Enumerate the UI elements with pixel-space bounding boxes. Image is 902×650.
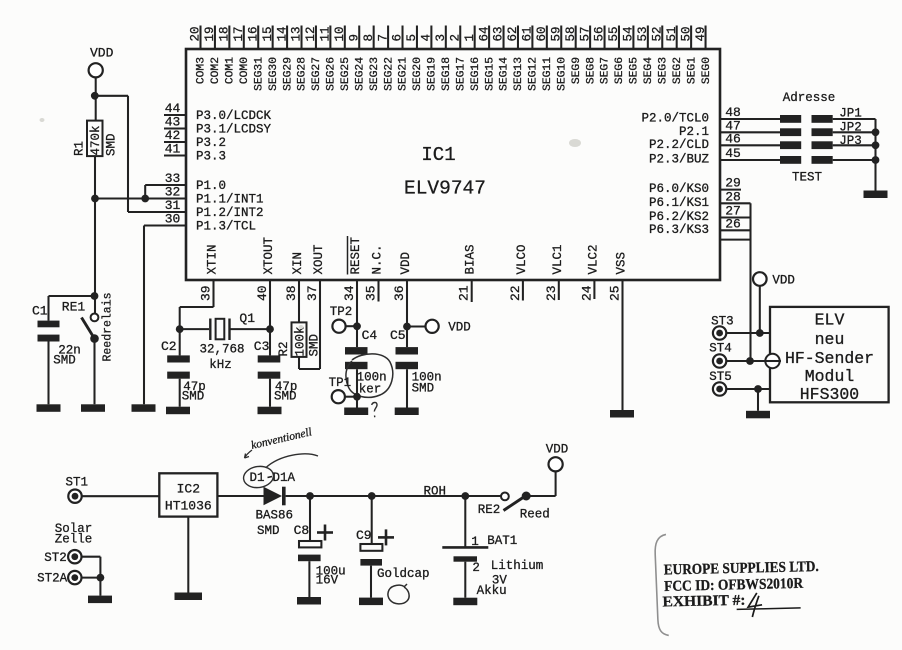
svg-text:Adresse: Adresse bbox=[783, 91, 836, 105]
svg-text:SEG26: SEG26 bbox=[326, 57, 338, 91]
svg-text:BAT1: BAT1 bbox=[487, 534, 517, 548]
svg-text:SEG0: SEG0 bbox=[701, 57, 713, 84]
svg-text:SEG23: SEG23 bbox=[369, 57, 381, 91]
crystal Q1 32,768 kHz bbox=[180, 311, 270, 372]
svg-text:40: 40 bbox=[255, 285, 270, 301]
node crystal left bbox=[176, 325, 184, 333]
svg-text:49: 49 bbox=[694, 26, 708, 41]
svg-text:46: 46 bbox=[725, 131, 741, 146]
svg-text:28: 28 bbox=[725, 189, 741, 204]
svg-text:IC2: IC2 bbox=[177, 482, 200, 497]
svg-text:37: 37 bbox=[305, 285, 320, 301]
svg-text:50: 50 bbox=[679, 26, 693, 41]
svg-text:SMD: SMD bbox=[105, 133, 119, 156]
svg-text:SEG12: SEG12 bbox=[528, 57, 540, 91]
svg-text:N.C.: N.C. bbox=[371, 244, 385, 274]
wire IC2 to D1 bbox=[217, 495, 263, 497]
svg-text:VLC2: VLC2 bbox=[586, 244, 600, 274]
connector ST2A bbox=[37, 571, 81, 586]
svg-text:P2.0/TCL0: P2.0/TCL0 bbox=[641, 112, 709, 126]
VDD supply symbol right bbox=[753, 272, 795, 287]
ground below BAT1 bbox=[453, 598, 477, 606]
svg-text:SEG24: SEG24 bbox=[354, 57, 366, 91]
wire RE2 to VDD bbox=[526, 471, 555, 496]
svg-text:51: 51 bbox=[665, 26, 679, 41]
svg-text:24: 24 bbox=[579, 285, 594, 301]
node TP2 on RESET line bbox=[353, 322, 361, 330]
svg-text:P1.3/TCL: P1.3/TCL bbox=[196, 220, 256, 234]
svg-text:P6.1/KS1: P6.1/KS1 bbox=[649, 196, 709, 210]
svg-text:SEG30: SEG30 bbox=[268, 57, 280, 91]
wire jumper bus to ground with nodes bbox=[872, 119, 880, 191]
svg-text:17: 17 bbox=[232, 26, 246, 41]
svg-text:ELV: ELV bbox=[815, 311, 845, 330]
svg-text:SMD: SMD bbox=[274, 390, 297, 404]
svg-text:JP1: JP1 bbox=[839, 107, 862, 121]
svg-text:32,768: 32,768 bbox=[200, 343, 245, 357]
svg-text:C2: C2 bbox=[161, 339, 177, 354]
svg-text:P1.0: P1.0 bbox=[196, 179, 226, 193]
svg-text:36: 36 bbox=[392, 285, 407, 301]
svg-text:Q1: Q1 bbox=[239, 311, 255, 326]
svg-text:25: 25 bbox=[608, 285, 623, 301]
svg-text:EXHIBIT #:: EXHIBIT #: bbox=[662, 593, 745, 611]
ground below jumpers bbox=[864, 191, 888, 199]
svg-text:COM2: COM2 bbox=[210, 57, 222, 84]
svg-text:SEG6: SEG6 bbox=[614, 57, 626, 84]
IC1 top pins 20..1,64..49 with COM3-COM0/SEG31-SEG0 labels bbox=[189, 26, 713, 91]
wire C8 to ground bbox=[308, 561, 310, 597]
svg-text:5: 5 bbox=[405, 34, 419, 42]
svg-text:P3.1/LCDSY: P3.1/LCDSY bbox=[196, 123, 272, 137]
node pin36 VDD bbox=[403, 323, 411, 331]
svg-text:64: 64 bbox=[477, 26, 491, 41]
wire C4 to TP1 node bbox=[356, 369, 358, 397]
wire ST3 to HF module with VDD node bbox=[726, 329, 770, 337]
wire C9 to ground bbox=[370, 566, 372, 598]
svg-text:D1: D1 bbox=[250, 471, 265, 485]
diode D1/D1A BAS86 SMD bbox=[250, 471, 296, 538]
hand-drawn loop around 100n ker bbox=[346, 354, 393, 397]
svg-text:D1A: D1A bbox=[273, 471, 296, 485]
svg-text:R2: R2 bbox=[277, 341, 291, 356]
svg-text:HFS300: HFS300 bbox=[800, 385, 859, 404]
svg-text:SEG10: SEG10 bbox=[556, 57, 568, 91]
svg-text:P1.1/INT1: P1.1/INT1 bbox=[196, 193, 264, 207]
svg-text:8: 8 bbox=[362, 34, 376, 42]
hand-drawn circle around D1 with tail over D1A bbox=[242, 454, 318, 490]
svg-text:BAS86: BAS86 bbox=[256, 509, 294, 523]
resistor R2 100k SMD between XIN and XOUT bbox=[277, 322, 322, 357]
wire R2 bottom to pin37 XOUT bbox=[299, 357, 320, 369]
svg-text:57: 57 bbox=[578, 26, 592, 41]
svg-text:SEG20: SEG20 bbox=[412, 57, 424, 91]
ground below C9 bbox=[359, 598, 383, 606]
svg-text:ELV9747: ELV9747 bbox=[404, 178, 486, 200]
svg-text:RE1: RE1 bbox=[62, 300, 86, 315]
svg-text:Akku: Akku bbox=[477, 584, 507, 598]
svg-text:VDD: VDD bbox=[399, 252, 413, 275]
svg-text:SEG7: SEG7 bbox=[600, 57, 612, 84]
svg-text:VDD: VDD bbox=[90, 46, 114, 61]
svg-text:C8: C8 bbox=[294, 523, 310, 538]
svg-text:SEG9: SEG9 bbox=[571, 57, 583, 84]
svg-text:ST2A: ST2A bbox=[37, 572, 68, 586]
svg-text:XTOUT: XTOUT bbox=[262, 236, 276, 274]
svg-text:10: 10 bbox=[333, 26, 347, 41]
wire C2 to ground bbox=[179, 379, 181, 407]
svg-text:11: 11 bbox=[319, 26, 333, 41]
svg-text:12: 12 bbox=[304, 26, 318, 41]
svg-text:HT1036: HT1036 bbox=[165, 499, 212, 514]
resistor R1 470k SMD bbox=[73, 121, 119, 157]
module ELV neu HF-Sender Modul HFS300 bbox=[770, 307, 889, 404]
svg-text:VSS: VSS bbox=[615, 252, 629, 275]
svg-text:60: 60 bbox=[535, 26, 549, 41]
svg-text:P2.3/BUZ: P2.3/BUZ bbox=[649, 153, 710, 167]
svg-text:ROH: ROH bbox=[424, 485, 447, 499]
svg-text:15: 15 bbox=[261, 26, 275, 41]
svg-text:SMD: SMD bbox=[308, 334, 322, 357]
IC1 right pins 29-26 P6.0/KS0 P6.1/KS1 P6.2/KS2 P6.3/KS3 bbox=[649, 176, 751, 240]
ground below RE1 bbox=[81, 404, 105, 412]
svg-text:HF-Sender: HF-Sender bbox=[785, 349, 874, 368]
svg-text:P6.3/KS3: P6.3/KS3 bbox=[649, 223, 709, 237]
ground below IC2 bbox=[175, 593, 203, 601]
svg-text:ST2: ST2 bbox=[44, 551, 67, 565]
wire ST5 to HF module with ground node bbox=[726, 385, 770, 393]
ground below C8 bbox=[297, 597, 321, 605]
battery BAT1 Lithium 3V Akku bbox=[442, 534, 543, 598]
svg-text:P2.1: P2.1 bbox=[679, 125, 709, 139]
svg-text:P3.0/LCDCK: P3.0/LCDCK bbox=[196, 109, 272, 123]
wire node to BAT1 bbox=[464, 496, 466, 547]
hand-drawn loop near Goldcap bbox=[388, 584, 409, 604]
svg-text:VDD: VDD bbox=[448, 321, 471, 335]
wire pin39 XTIN to crystal bbox=[180, 307, 214, 329]
svg-text:7: 7 bbox=[376, 34, 390, 42]
FCC exhibit stamp bbox=[655, 531, 821, 636]
svg-text:13: 13 bbox=[290, 26, 304, 41]
svg-text:VLCO: VLCO bbox=[515, 244, 529, 274]
svg-text:SEG16: SEG16 bbox=[470, 57, 482, 91]
svg-text:SEG4: SEG4 bbox=[643, 57, 655, 84]
svg-text:SEG1: SEG1 bbox=[686, 57, 698, 84]
svg-text:55: 55 bbox=[607, 26, 621, 41]
ground below pin25 VSS bbox=[610, 410, 634, 418]
svg-text:ker: ker bbox=[359, 383, 382, 397]
ground below ST2A bbox=[88, 596, 112, 604]
node C9 bbox=[368, 492, 376, 500]
svg-text:470k: 470k bbox=[89, 125, 103, 155]
wire IC2 to ground bbox=[187, 517, 189, 593]
capacitor C2 47p SMD bbox=[161, 329, 206, 403]
svg-text:BIAS: BIAS bbox=[464, 244, 478, 274]
svg-text:SEG14: SEG14 bbox=[499, 57, 511, 91]
svg-text:SEG5: SEG5 bbox=[629, 57, 641, 84]
svg-text:53: 53 bbox=[636, 26, 650, 41]
svg-text:JP2: JP2 bbox=[839, 121, 862, 135]
svg-text:45: 45 bbox=[725, 146, 741, 161]
handwritten annotation konventionell with arrow bbox=[245, 426, 314, 458]
wire pin30 P1.3/TCL to ground bbox=[143, 226, 145, 405]
connector ST2 bbox=[44, 550, 81, 565]
svg-text:SMD: SMD bbox=[412, 382, 435, 396]
IC1 bottom pins 39,40,38,37,34,35,36,21-25 XTIN XTOUT XIN XOUT /RESET N.C. VDD BIAS VLCO VLC1 VLC2 VSS bbox=[199, 236, 629, 410]
svg-text:61: 61 bbox=[521, 26, 535, 41]
svg-text:SEG31: SEG31 bbox=[253, 57, 265, 91]
svg-text:14: 14 bbox=[275, 26, 289, 41]
svg-text:kHz: kHz bbox=[209, 358, 232, 372]
wire VDD to R1 and node bbox=[91, 77, 99, 120]
svg-text:SEG29: SEG29 bbox=[282, 57, 294, 91]
ground below P1.3 wire bbox=[132, 404, 156, 412]
wire VDD right down to ST3 line bbox=[759, 286, 761, 333]
svg-text:SEG11: SEG11 bbox=[542, 57, 554, 91]
svg-text:Lithium: Lithium bbox=[491, 559, 544, 573]
svg-text:ST1: ST1 bbox=[66, 476, 89, 490]
svg-text:SMD: SMD bbox=[182, 390, 205, 404]
svg-text:2: 2 bbox=[472, 561, 480, 575]
node TP1 on RESET line bbox=[353, 393, 361, 401]
svg-text:RESET: RESET bbox=[349, 236, 363, 274]
svg-text:16: 16 bbox=[246, 26, 260, 41]
svg-text:58: 58 bbox=[564, 26, 578, 41]
svg-text:19: 19 bbox=[203, 26, 217, 41]
reed relay contact RE1 Reedrelais bbox=[62, 292, 115, 361]
svg-text:SMD: SMD bbox=[53, 353, 76, 367]
wire pin28 bus down to ST4 bbox=[749, 203, 751, 361]
svg-text:3: 3 bbox=[434, 34, 448, 42]
svg-text:Reedrelais: Reedrelais bbox=[102, 292, 115, 361]
capacitor C1 22n SMD bbox=[32, 304, 81, 368]
test point TP2 bbox=[330, 305, 357, 333]
svg-text:neu: neu bbox=[815, 330, 845, 349]
hand-drawn question mark bbox=[372, 402, 377, 417]
ground below ST5 line bbox=[746, 411, 770, 419]
svg-text:20: 20 bbox=[189, 26, 203, 41]
wire R1 to RE1, node to pin32 bbox=[91, 156, 149, 314]
svg-text:56: 56 bbox=[593, 26, 607, 41]
svg-text:23: 23 bbox=[544, 285, 559, 301]
svg-text:RE2: RE2 bbox=[478, 503, 501, 517]
svg-text:P6.0/KS0: P6.0/KS0 bbox=[649, 182, 709, 196]
svg-text:P3.2: P3.2 bbox=[196, 136, 226, 150]
svg-text:C9: C9 bbox=[356, 528, 372, 543]
svg-text:Reed: Reed bbox=[520, 508, 550, 522]
svg-text:16V: 16V bbox=[316, 574, 339, 588]
wire C3 to ground bbox=[269, 379, 271, 407]
svg-text:XTIN: XTIN bbox=[206, 244, 220, 274]
wire TP1 node to ground bbox=[356, 397, 358, 408]
ground below C5 bbox=[395, 408, 419, 416]
svg-text:22: 22 bbox=[508, 285, 523, 301]
wire C5 to ground bbox=[406, 369, 408, 407]
svg-text:C5: C5 bbox=[390, 328, 406, 343]
svg-text:34: 34 bbox=[342, 285, 357, 301]
IC IC2 HT1036 bbox=[159, 473, 217, 516]
svg-text:IC1: IC1 bbox=[421, 144, 455, 166]
connector ST5 bbox=[709, 370, 732, 396]
svg-text:COM0: COM0 bbox=[239, 57, 251, 84]
svg-text:Zelle: Zelle bbox=[55, 533, 93, 547]
capacitor C8 100u 16V electrolytic bbox=[294, 496, 346, 588]
capacitor C5 100n SMD bbox=[390, 327, 442, 396]
node C8 bbox=[306, 492, 314, 500]
svg-text:COM1: COM1 bbox=[225, 57, 237, 84]
svg-text:Modul: Modul bbox=[805, 367, 855, 386]
wire ST4 to HF module with bus node bbox=[726, 357, 765, 365]
ground below C2 bbox=[166, 407, 190, 415]
svg-text:26: 26 bbox=[725, 216, 741, 231]
svg-text:SEG18: SEG18 bbox=[441, 57, 453, 91]
svg-text:21: 21 bbox=[457, 285, 472, 301]
svg-text:P2.2/CLD: P2.2/CLD bbox=[649, 138, 709, 152]
ground below C4 bbox=[344, 408, 368, 416]
wire BAT1 to ground bbox=[464, 562, 466, 598]
svg-text:100k: 100k bbox=[294, 326, 308, 356]
svg-text:COM3: COM3 bbox=[196, 57, 208, 84]
capacitor C3 47p SMD bbox=[254, 329, 298, 403]
node crystal right on pin40 XTOUT bbox=[266, 325, 274, 333]
VDD supply symbol bottom bbox=[546, 443, 569, 472]
svg-text:SEG17: SEG17 bbox=[455, 57, 467, 91]
wire C1 to ground bbox=[47, 342, 49, 405]
svg-text:SEG21: SEG21 bbox=[398, 57, 410, 91]
svg-text:4: 4 bbox=[420, 34, 434, 42]
svg-text:C3: C3 bbox=[254, 339, 270, 354]
svg-text:C1: C1 bbox=[32, 304, 48, 319]
scan smudge marks (decorative) bbox=[40, 118, 582, 329]
svg-text:9: 9 bbox=[347, 34, 361, 42]
svg-text:R1: R1 bbox=[73, 141, 87, 156]
wire RE1 to ground bbox=[93, 339, 95, 405]
svg-text:SEG15: SEG15 bbox=[484, 57, 496, 91]
svg-text:TEST: TEST bbox=[792, 171, 823, 185]
IC1 right pins 48-45 P2.0/TCL0 P2.1 P2.2/CLD P2.3/BUZ bbox=[641, 105, 740, 167]
capacitor C9 Goldcap bbox=[356, 496, 430, 581]
svg-text:1: 1 bbox=[471, 535, 479, 549]
connector ST4 bbox=[709, 342, 732, 368]
svg-text:XIN: XIN bbox=[291, 252, 305, 275]
jumper block JP1 JP2 JP3 rows from P2.0-P2.3 bbox=[720, 107, 876, 164]
svg-text:39: 39 bbox=[199, 285, 214, 301]
svg-text:Goldcap: Goldcap bbox=[377, 567, 430, 581]
capacitor C4 100n ker bbox=[345, 326, 387, 396]
svg-text:63: 63 bbox=[492, 26, 506, 41]
svg-text:SEG3: SEG3 bbox=[657, 57, 669, 84]
svg-text:SEG25: SEG25 bbox=[340, 57, 352, 91]
svg-text:38: 38 bbox=[284, 285, 299, 301]
connector ST3 bbox=[711, 315, 734, 340]
svg-text:P3.3: P3.3 bbox=[196, 150, 226, 164]
node BAT1/RE2 bbox=[461, 492, 469, 500]
wire ST5 node to ground bbox=[757, 389, 759, 411]
svg-text:TP1: TP1 bbox=[329, 376, 352, 390]
VDD supply symbol near pin36 bbox=[407, 320, 471, 335]
svg-text:SEG28: SEG28 bbox=[297, 57, 309, 91]
antenna connector circle on HF module edge bbox=[765, 354, 781, 368]
svg-text:XOUT: XOUT bbox=[312, 244, 326, 275]
svg-text:2: 2 bbox=[448, 34, 462, 42]
svg-text:1: 1 bbox=[463, 34, 477, 42]
svg-text:41: 41 bbox=[165, 142, 181, 157]
ground below C3 bbox=[258, 407, 282, 415]
ground below C1 bbox=[37, 404, 61, 412]
VDD supply symbol top-left bbox=[89, 46, 114, 78]
node C1 branch bbox=[49, 292, 99, 321]
wire ST1 to IC2 bbox=[82, 495, 160, 497]
label Solar Zelle bbox=[55, 522, 93, 547]
svg-text:VDD: VDD bbox=[546, 443, 569, 457]
svg-text:30: 30 bbox=[165, 212, 181, 227]
svg-text:SEG27: SEG27 bbox=[311, 57, 323, 91]
reed switch RE2 Reed bbox=[478, 492, 550, 522]
svg-text:52: 52 bbox=[650, 26, 664, 41]
wire ST2/ST2A to ground bbox=[82, 557, 105, 596]
IC IC1 ELV9747 body bbox=[186, 49, 720, 280]
svg-text:62: 62 bbox=[506, 26, 520, 41]
svg-text:SMD: SMD bbox=[257, 524, 280, 538]
svg-text:35: 35 bbox=[364, 285, 379, 301]
IC1 left pins 33-30 P1.0 P1.1/INT1 P1.2/INT2 P1.3/TCL bbox=[95, 171, 264, 234]
wire node to pin31 P1.2/INT2 bbox=[95, 96, 128, 212]
svg-text:59: 59 bbox=[549, 26, 563, 41]
svg-text:SEG19: SEG19 bbox=[427, 57, 439, 91]
svg-text:VLC1: VLC1 bbox=[551, 244, 565, 274]
svg-text:VDD: VDD bbox=[772, 274, 795, 288]
svg-text:P1.2/INT2: P1.2/INT2 bbox=[196, 206, 264, 220]
test point TP1 bbox=[329, 376, 357, 403]
svg-text:54: 54 bbox=[622, 26, 636, 41]
IC1 left pins 44-41 P3.0/LCDCK P3.1/LCDSY P3.2 P3.3 bbox=[164, 101, 272, 164]
connector ST1 bbox=[66, 476, 89, 503]
svg-text:SEG8: SEG8 bbox=[585, 57, 597, 84]
svg-text:C4: C4 bbox=[362, 328, 378, 343]
svg-text:SEG13: SEG13 bbox=[513, 57, 525, 91]
svg-text:SEG2: SEG2 bbox=[672, 57, 684, 84]
svg-text:TP2: TP2 bbox=[330, 305, 353, 319]
svg-text:18: 18 bbox=[218, 26, 232, 41]
svg-text:SEG22: SEG22 bbox=[383, 57, 395, 91]
svg-text:6: 6 bbox=[391, 34, 405, 42]
svg-text:JP3: JP3 bbox=[839, 134, 862, 148]
wire D1 cathode rail to RE2 bbox=[286, 495, 501, 497]
